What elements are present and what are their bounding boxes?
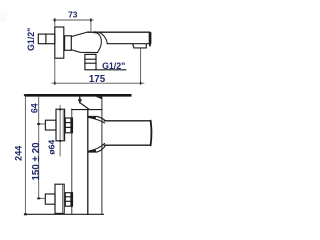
svg-text:G1/2": G1/2" (26, 28, 36, 51)
svg-text:73: 73 (68, 10, 78, 20)
svg-text:244: 244 (14, 146, 24, 161)
svg-text:150 ± 20: 150 ± 20 (31, 142, 42, 181)
svg-text:G1/2": G1/2" (102, 61, 125, 71)
svg-text:ø64: ø64 (47, 140, 57, 155)
svg-text:64: 64 (29, 103, 39, 113)
svg-text:175: 175 (89, 74, 106, 85)
